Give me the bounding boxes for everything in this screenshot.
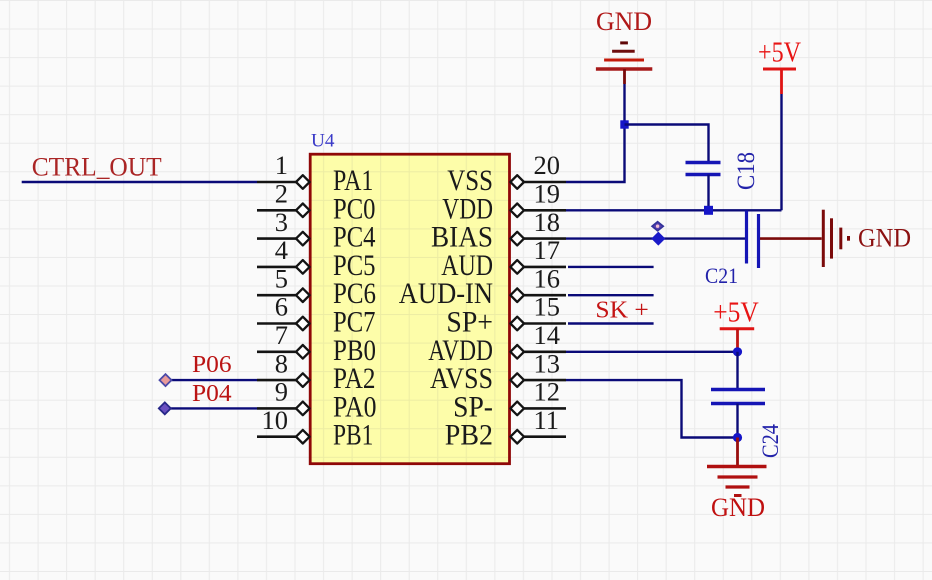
svg-text:P06: P06	[192, 352, 232, 378]
power port +5V stem red	[780, 69, 783, 94]
small marker above BIAS node	[652, 222, 663, 231]
junction at VDD node	[704, 206, 713, 215]
svg-text:PC6: PC6	[333, 278, 376, 310]
node marker on BIAS wire	[651, 232, 665, 246]
capacitor C24 top plate	[711, 388, 765, 391]
pin 4 line	[257, 266, 297, 269]
svg-text:15: 15	[534, 292, 561, 322]
wire C18 to VDD net	[707, 175, 709, 211]
svg-text:SK +: SK +	[595, 298, 648, 324]
IC U4 border	[310, 154, 509, 464]
wire GND stem	[623, 84, 625, 125]
pin 10 line	[257, 435, 297, 438]
pin 4 symbol	[296, 260, 310, 274]
svg-text:PC5: PC5	[333, 250, 376, 282]
wire BIAS to C21	[566, 237, 745, 239]
power port +5V top bar	[763, 68, 796, 71]
pin 15 symbol	[510, 317, 524, 331]
power port GND bottom stem	[736, 438, 739, 467]
pin 7 line	[257, 350, 297, 353]
junction at AVDD node	[733, 347, 742, 356]
svg-text:7: 7	[275, 320, 288, 350]
wire net CTRL_OUT	[22, 181, 257, 183]
ground symbol right bar1	[822, 210, 825, 267]
pin 5 symbol	[296, 288, 310, 302]
svg-text:16: 16	[534, 263, 561, 293]
pin 7 symbol	[296, 345, 310, 359]
pin 18 symbol	[510, 232, 524, 246]
svg-text:17: 17	[534, 235, 561, 265]
capacitor C21 right plate	[757, 214, 760, 268]
pin 14 symbol	[510, 345, 524, 359]
ground symbol top bar1	[620, 41, 628, 44]
svg-text:C18: C18	[733, 152, 760, 190]
wire net P04	[168, 407, 257, 409]
pin 20 symbol	[510, 175, 524, 189]
wire GND node to C18	[625, 125, 709, 163]
svg-text:VDD: VDD	[442, 193, 493, 225]
svg-text:+5V: +5V	[713, 297, 759, 329]
svg-text:20: 20	[534, 150, 561, 180]
svg-text:GND: GND	[858, 224, 911, 253]
wire AVDD to +5V	[566, 351, 738, 353]
pin 16 line	[523, 294, 566, 297]
svg-text:P04: P04	[192, 381, 232, 407]
svg-text:PC7: PC7	[333, 307, 376, 339]
wire AVSS to C24 bottom	[566, 380, 738, 437]
svg-text:PC0: PC0	[333, 193, 376, 225]
pin 2 symbol	[296, 204, 310, 218]
pin 20 line	[523, 181, 566, 184]
pin 19 symbol	[510, 204, 524, 218]
svg-text:AUD-IN: AUD-IN	[399, 278, 493, 310]
ground symbol right bar2	[830, 218, 833, 258]
pin 8 line	[257, 379, 297, 382]
svg-text:18: 18	[534, 207, 561, 237]
junction at AVSS node	[733, 433, 742, 442]
svg-text:PC4: PC4	[333, 222, 376, 254]
svg-text:PB2: PB2	[445, 420, 493, 452]
svg-text:C21: C21	[705, 263, 738, 288]
pin 1 line	[257, 181, 297, 184]
pin 13 line	[523, 379, 566, 382]
net marker P06	[160, 374, 172, 386]
svg-text:3: 3	[275, 207, 288, 237]
svg-text:2: 2	[275, 179, 288, 209]
pin 10 symbol	[296, 430, 310, 444]
ground symbol bottom bar2	[718, 475, 758, 478]
wire C24 to AVSS node	[736, 404, 738, 438]
pin 18 line	[523, 237, 566, 240]
svg-text:U4: U4	[311, 131, 335, 152]
svg-text:5: 5	[275, 263, 288, 293]
svg-text:4: 4	[275, 235, 288, 265]
pin 5 line	[257, 294, 297, 297]
wire VSS to GND	[566, 125, 625, 183]
wire net SK +	[568, 322, 654, 324]
svg-text:10: 10	[262, 405, 289, 435]
pin 2 line	[257, 209, 297, 212]
pin 16 symbol	[510, 288, 524, 302]
capacitor C21 left plate	[745, 211, 748, 264]
ground symbol bottom bar4	[734, 494, 742, 497]
svg-text:VSS: VSS	[447, 165, 493, 197]
ground stem red	[623, 69, 626, 84]
svg-text:GND: GND	[711, 493, 765, 522]
svg-text:1: 1	[275, 150, 288, 180]
wire VDD to +5V	[566, 209, 782, 211]
svg-text:+5V: +5V	[758, 37, 801, 69]
pin 9 symbol	[296, 402, 310, 416]
pin 3 symbol	[296, 232, 310, 246]
power port +5V bottom bar	[720, 327, 755, 330]
svg-text:12: 12	[534, 377, 561, 407]
net marker P04	[159, 402, 171, 414]
capacitor C18 top plate	[686, 161, 721, 164]
pin 17 line	[523, 266, 566, 269]
pin 15 line	[523, 322, 566, 325]
capacitor C18 bottom plate	[686, 173, 721, 176]
ground symbol top bar3	[604, 59, 644, 62]
junction at GND node	[620, 120, 628, 128]
svg-text:19: 19	[534, 179, 561, 209]
pin 6 line	[257, 322, 297, 325]
svg-text:PA0: PA0	[333, 391, 377, 423]
capacitor C24 bottom plate	[711, 402, 765, 405]
ground symbol top bar4	[596, 67, 652, 70]
svg-text:AVSS: AVSS	[430, 363, 493, 395]
svg-text:PA1: PA1	[333, 165, 373, 197]
wire +5V to VDD	[780, 94, 782, 210]
svg-text:9: 9	[275, 377, 288, 407]
pin 17 symbol	[510, 260, 524, 274]
pin 11 line	[523, 435, 566, 438]
ground symbol bottom bar3	[726, 485, 750, 488]
pin 3 line	[257, 237, 297, 240]
svg-text:SP+: SP+	[446, 307, 493, 339]
wire net P06	[169, 379, 257, 381]
pin 12 line	[523, 407, 566, 410]
svg-text:14: 14	[534, 320, 561, 350]
ground symbol right bar3	[839, 228, 842, 250]
pin 8 symbol	[296, 373, 310, 387]
wire C21 to GND right	[760, 237, 822, 240]
svg-text:11: 11	[534, 405, 560, 435]
svg-text:PA2: PA2	[333, 363, 376, 395]
pin 12 symbol	[510, 402, 524, 416]
pin 13 symbol	[510, 373, 524, 387]
pin 19 line	[523, 209, 566, 212]
svg-text:BIAS: BIAS	[431, 222, 493, 254]
svg-text:PB1: PB1	[333, 420, 373, 452]
svg-text:SP-: SP-	[453, 391, 493, 423]
IC U4 body	[310, 154, 509, 464]
svg-text:8: 8	[275, 348, 288, 378]
svg-text:13: 13	[534, 348, 561, 378]
svg-text:PB0: PB0	[333, 335, 376, 367]
svg-text:AUD: AUD	[441, 250, 493, 282]
svg-text:CTRL_OUT: CTRL_OUT	[32, 153, 162, 182]
pin 1 symbol	[296, 175, 310, 189]
power port +5V bottom stem	[736, 329, 739, 352]
ground symbol right bar4	[847, 236, 850, 241]
svg-text:C24: C24	[758, 424, 783, 458]
pin 9 line	[257, 407, 297, 410]
pin 14 line	[523, 350, 566, 353]
pin 6 symbol	[296, 317, 310, 331]
svg-text:6: 6	[275, 292, 288, 322]
ground symbol top bar2	[612, 50, 635, 53]
svg-text:GND: GND	[596, 7, 652, 36]
pin 11 symbol	[510, 430, 524, 444]
svg-text:AVDD: AVDD	[428, 335, 493, 367]
wire AUD-IN stub	[568, 294, 654, 296]
wire AUD stub	[568, 266, 654, 268]
ground symbol bottom bar1	[707, 465, 767, 468]
wire AVDD node to C24	[736, 352, 738, 390]
